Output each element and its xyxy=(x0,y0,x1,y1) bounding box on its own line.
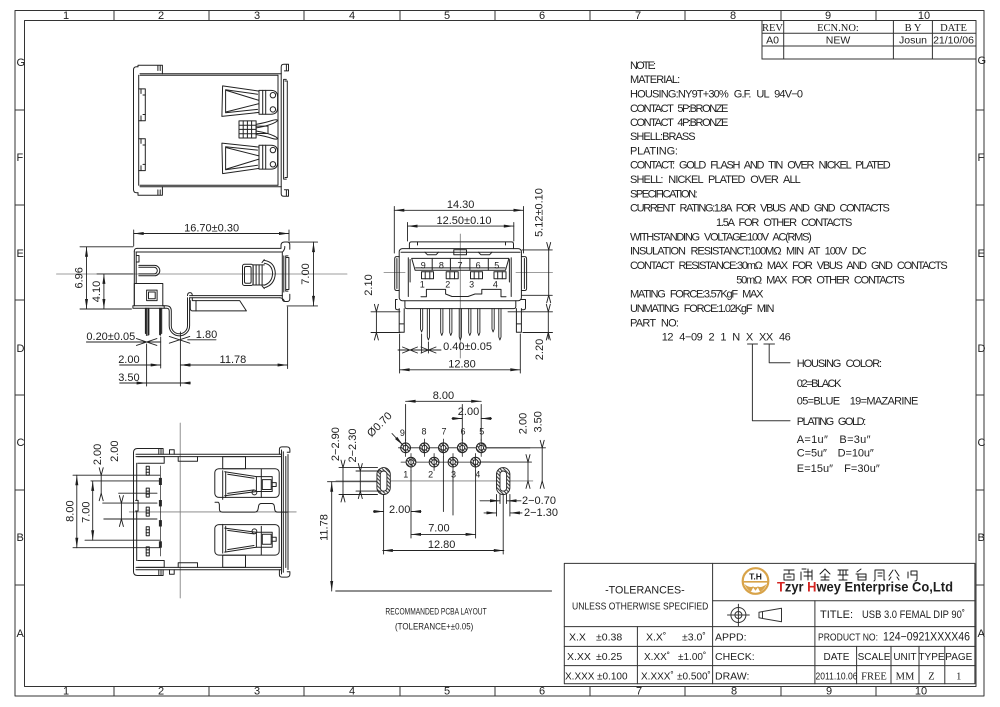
grid letters right xyxy=(978,55,987,640)
svg-text:FREE: FREE xyxy=(861,671,887,682)
centerlines xyxy=(459,234,461,358)
top stamped tabs xyxy=(425,252,439,255)
svg-text:1: 1 xyxy=(63,686,69,698)
svg-text:6: 6 xyxy=(539,10,545,22)
svg-text:7: 7 xyxy=(636,686,642,698)
body outline xyxy=(134,453,137,572)
rounded hook tab xyxy=(139,265,160,275)
side ears xyxy=(395,257,400,291)
svg-text:PART NO:: PART NO: xyxy=(630,318,679,330)
svg-text:2−1.30: 2−1.30 xyxy=(524,507,558,519)
svg-text:124−0921XXXX46: 124−0921XXXX46 xyxy=(883,632,970,644)
dim 5.12+-0.10 xyxy=(522,250,552,295)
svg-text:NOTE:: NOTE: xyxy=(630,60,656,72)
top-right hook xyxy=(281,64,288,74)
svg-text:F: F xyxy=(17,152,24,164)
svg-text:2−2.30: 2−2.30 xyxy=(347,429,359,463)
svg-text:12.50±0.10: 12.50±0.10 xyxy=(437,215,492,227)
svg-text:A: A xyxy=(978,628,986,640)
svg-text:6: 6 xyxy=(539,686,545,698)
right band ticks xyxy=(976,110,984,585)
dim 4.10 xyxy=(97,274,133,309)
top latch xyxy=(222,86,278,117)
svg-text:2.00: 2.00 xyxy=(389,504,410,516)
svg-text:2.00: 2.00 xyxy=(118,354,139,366)
small tab left of plate xyxy=(188,293,193,296)
svg-text:0.20±0.05: 0.20±0.05 xyxy=(86,331,135,343)
svg-text:G: G xyxy=(978,55,987,67)
company chinese name (stylized glyph strokes) xyxy=(784,569,917,581)
svg-text:PAGE: PAGE xyxy=(945,652,972,663)
svg-text:7: 7 xyxy=(635,10,641,22)
svg-text:PLATING GOLD:: PLATING GOLD: xyxy=(797,416,867,428)
svg-text:2.00: 2.00 xyxy=(109,440,121,461)
svg-text:A: A xyxy=(17,628,25,640)
svg-text:2011.10.06: 2011.10.06 xyxy=(816,671,858,682)
svg-text:7.00: 7.00 xyxy=(81,501,93,522)
svg-text:8.00: 8.00 xyxy=(433,390,454,402)
dim 7.00 (pcb) xyxy=(411,457,476,539)
svg-text:X.X˚: X.X˚ xyxy=(646,632,666,644)
svg-text:CONTACT 4P:BRONZE: CONTACT 4P:BRONZE xyxy=(630,117,729,129)
svg-text:±1.00˚: ±1.00˚ xyxy=(678,651,706,663)
dim 2-2.90 xyxy=(339,468,378,495)
svg-text:E: E xyxy=(17,248,24,260)
svg-text:D: D xyxy=(17,343,25,355)
dim 2-1.30 xyxy=(484,495,522,517)
centerlines xyxy=(179,423,181,598)
svg-text:8.00: 8.00 xyxy=(65,500,77,521)
svg-text:4: 4 xyxy=(349,10,355,22)
svg-text:1: 1 xyxy=(63,10,69,22)
svg-text:T.H: T.H xyxy=(749,572,762,582)
svg-text:INSULATION RESISTANCT:100MΩ MI: INSULATION RESISTANCT:100MΩ MIN AT 100V … xyxy=(630,246,867,258)
svg-text:TYPE: TYPE xyxy=(918,652,944,663)
svg-text:2: 2 xyxy=(445,280,450,290)
dim 11.78 (bottom view to pcb line) xyxy=(328,482,391,591)
dim 11.78 (side view) xyxy=(180,307,287,369)
svg-text:DATE: DATE xyxy=(824,652,850,663)
part number callout lines xyxy=(748,344,791,421)
svg-text:5.12±0.10: 5.12±0.10 xyxy=(534,188,546,237)
top/bottom tabs xyxy=(223,457,246,469)
svg-text:B Y: B Y xyxy=(905,23,922,34)
svg-text:X.X: X.X xyxy=(569,632,586,644)
row lines xyxy=(398,448,530,462)
svg-text:SHELL: NICKEL PLATED OVER ALL: SHELL: NICKEL PLATED OVER ALL xyxy=(630,174,801,186)
svg-text:6: 6 xyxy=(460,427,465,437)
svg-text:7: 7 xyxy=(441,427,446,437)
dim 2.00 (pcb top) xyxy=(452,405,492,442)
svg-text:3.50: 3.50 xyxy=(118,372,139,384)
svg-text:2.10: 2.10 xyxy=(363,274,375,295)
grid numbers top xyxy=(63,10,930,22)
svg-text:2.20: 2.20 xyxy=(534,339,546,360)
latch side profile xyxy=(243,260,276,289)
svg-text:CHECK:: CHECK: xyxy=(715,651,755,663)
svg-text:F: F xyxy=(978,152,985,164)
dim 2.00 (pcb bottom-left) xyxy=(374,471,422,555)
svg-text:X.XXX˚: X.XXX˚ xyxy=(641,670,674,682)
svg-text:1: 1 xyxy=(403,470,408,480)
projection symbols xyxy=(728,604,782,626)
svg-text:7: 7 xyxy=(457,260,462,270)
svg-text:2−2.90: 2−2.90 xyxy=(330,427,342,461)
svg-text:Tzyr Hwey Enterprise Co,Ltd: Tzyr Hwey Enterprise Co,Ltd xyxy=(777,580,953,595)
left flange xyxy=(134,70,139,190)
bottom right hook xyxy=(280,294,290,301)
pad tick lines xyxy=(406,439,482,471)
svg-text:2: 2 xyxy=(428,470,433,480)
svg-text:UNLESS OTHERWISE SPECIFIED: UNLESS OTHERWISE SPECIFIED xyxy=(572,601,708,612)
svg-text:1.80: 1.80 xyxy=(196,329,217,341)
svg-text:A0: A0 xyxy=(766,35,779,47)
svg-text:12.80: 12.80 xyxy=(428,539,456,551)
dim 8.00 (pcb) xyxy=(406,401,482,441)
mounting ovals xyxy=(377,468,510,495)
U bend xyxy=(163,298,188,334)
flange notches xyxy=(139,89,146,121)
svg-text:C=5u″ D=10u″: C=5u″ D=10u″ xyxy=(797,448,874,460)
svg-text:12 4−09 2 1 N X XX 46: 12 4−09 2 1 N X XX 46 xyxy=(662,332,791,344)
svg-text:2.00: 2.00 xyxy=(92,444,104,465)
svg-text:±0.500˚: ±0.500˚ xyxy=(677,670,711,682)
contacts under tongue xyxy=(422,272,507,279)
lower plate xyxy=(190,298,246,311)
svg-text:PLATING:: PLATING: xyxy=(630,146,678,158)
svg-text:14.30: 14.30 xyxy=(447,199,475,211)
svg-text:9: 9 xyxy=(826,686,832,698)
svg-text:11.78: 11.78 xyxy=(220,354,247,366)
svg-text:-TOLERANCES-: -TOLERANCES- xyxy=(605,585,685,597)
svg-text:DRAW:: DRAW: xyxy=(715,670,749,682)
title block xyxy=(564,563,975,683)
pins xyxy=(421,309,502,340)
dim 0.20+-0.05 xyxy=(86,339,160,346)
svg-text:9: 9 xyxy=(825,10,831,22)
dim 2-2.30 xyxy=(356,471,381,491)
svg-text:05=BLUE 19=MAZARINE: 05=BLUE 19=MAZARINE xyxy=(797,396,919,408)
svg-text:02=BLACK: 02=BLACK xyxy=(797,378,842,390)
svg-text:RECOMMANDED PCBA LAYOUT: RECOMMANDED PCBA LAYOUT xyxy=(385,607,486,618)
notes text block xyxy=(630,60,948,344)
svg-text:HOUSING COLOR:: HOUSING COLOR: xyxy=(797,358,883,370)
title fields xyxy=(818,609,973,663)
svg-text:±3.0˚: ±3.0˚ xyxy=(682,632,706,644)
svg-text:7.00: 7.00 xyxy=(428,522,449,534)
svg-text:21/10/06: 21/10/06 xyxy=(933,35,974,47)
svg-text:E=15u″ F=30u″: E=15u″ F=30u″ xyxy=(797,463,880,475)
svg-text:PRODUCT NO:: PRODUCT NO: xyxy=(818,633,878,644)
svg-text:B: B xyxy=(978,532,985,544)
dim 2.00 (side view) xyxy=(120,337,191,368)
svg-text:12.80: 12.80 xyxy=(448,359,476,371)
main shell xyxy=(399,249,521,301)
svg-text:WITHSTANDING VOLTAGE:100V AC(R: WITHSTANDING VOLTAGE:100V AC(RMS) xyxy=(630,232,812,244)
lower-left block xyxy=(134,284,163,306)
grid numbers bottom xyxy=(63,686,927,698)
centerline xyxy=(57,273,348,275)
svg-text:8: 8 xyxy=(730,10,736,22)
dia 0.70 leader xyxy=(392,434,403,446)
svg-text:3: 3 xyxy=(254,10,260,22)
svg-text:USB 3.0 FEMAL DIP 90˚: USB 3.0 FEMAL DIP 90˚ xyxy=(862,609,965,621)
company logo xyxy=(743,568,769,594)
svg-text:B: B xyxy=(17,532,24,544)
svg-text:1: 1 xyxy=(420,280,425,290)
shell top double line xyxy=(136,248,283,252)
dim 7.00 (side view right) xyxy=(287,242,318,306)
svg-text:±0.38: ±0.38 xyxy=(596,632,622,644)
svg-text:9: 9 xyxy=(400,428,405,438)
svg-text:A=1u″ B=3u″: A=1u″ B=3u″ xyxy=(797,434,871,446)
dims 2.00 / 3.50 (pcb right) xyxy=(481,448,546,481)
svg-text:ECN.NO:: ECN.NO: xyxy=(817,23,859,34)
svg-text:G: G xyxy=(17,57,26,69)
svg-text:3: 3 xyxy=(254,686,260,698)
svg-text:CURRENT RATING:1.8A FOR VBUS A: CURRENT RATING:1.8A FOR VBUS AND GND CON… xyxy=(630,203,890,215)
svg-text:5: 5 xyxy=(479,427,484,437)
dims left cluster xyxy=(73,475,160,548)
pads bottom row xyxy=(406,457,480,467)
dim 2.20 xyxy=(508,312,553,339)
svg-text:UNIT: UNIT xyxy=(893,652,916,663)
plating gold note xyxy=(797,416,880,475)
svg-text:Z: Z xyxy=(928,671,934,682)
mounting legs xyxy=(399,309,404,333)
top band ticks xyxy=(114,11,876,21)
bottom inner tabs xyxy=(421,289,452,296)
svg-text:2−0.70: 2−0.70 xyxy=(522,495,556,507)
left band ticks xyxy=(15,110,25,585)
svg-text:10: 10 xyxy=(915,686,927,698)
svg-text:2.00: 2.00 xyxy=(518,413,530,434)
dim 3.50 xyxy=(120,332,191,386)
svg-text:CONTACT: GOLD FLASH AND TIN OV: CONTACT: GOLD FLASH AND TIN OVER NICKEL … xyxy=(630,160,891,172)
bottom band ticks xyxy=(114,687,876,697)
svg-text:3: 3 xyxy=(469,280,474,290)
svg-text:5: 5 xyxy=(444,10,450,22)
svg-text:4.10: 4.10 xyxy=(91,281,103,302)
svg-text:CONTACT RESISTANCE:30mΩ MAX FO: CONTACT RESISTANCE:30mΩ MAX FOR VBUS AND… xyxy=(630,260,948,272)
svg-text:TITLE:: TITLE: xyxy=(820,609,853,621)
svg-text:C: C xyxy=(978,437,986,449)
top latch xyxy=(223,469,277,499)
svg-text:±0.100: ±0.100 xyxy=(597,671,628,682)
bottom-left tab xyxy=(138,187,162,195)
top right hook xyxy=(281,242,290,252)
dim 12.80 (pcb) xyxy=(383,495,504,555)
right strip xyxy=(284,79,288,179)
svg-text:D: D xyxy=(978,343,986,355)
svg-text:4: 4 xyxy=(493,280,498,290)
dim 12.80 (front view) xyxy=(400,334,521,373)
svg-text:X.XX˚: X.XX˚ xyxy=(644,651,670,663)
bottom-right hook xyxy=(281,187,288,197)
center latch mechanism xyxy=(239,120,277,139)
svg-text:APPD:: APPD: xyxy=(715,632,747,644)
svg-text:(TOLERANCE+±0.05): (TOLERANCE+±0.05) xyxy=(395,622,473,633)
svg-text:7.00: 7.00 xyxy=(300,263,312,284)
dim 12.50+-0.10 xyxy=(408,223,514,242)
svg-text:0.40±0.05: 0.40±0.05 xyxy=(443,341,492,353)
svg-text:3.50: 3.50 xyxy=(532,411,544,432)
svg-text:UNMATING FORCE:1.02KgF MIN: UNMATING FORCE:1.02KgF MIN xyxy=(630,303,775,315)
svg-text:SHELL:BRASS: SHELL:BRASS xyxy=(630,131,696,143)
pads top row xyxy=(401,443,486,453)
pcb surface line xyxy=(336,590,552,592)
svg-text:6: 6 xyxy=(476,260,481,270)
svg-text:9: 9 xyxy=(421,260,426,270)
shell left edge xyxy=(134,252,136,306)
pins xyxy=(145,308,149,335)
tolerances text xyxy=(565,585,711,683)
upper plate double line xyxy=(190,296,283,298)
svg-text:NEW: NEW xyxy=(826,35,851,47)
dim 16.70+-0.30 xyxy=(134,230,289,246)
svg-text:8: 8 xyxy=(439,260,444,270)
svg-text:10: 10 xyxy=(918,10,930,22)
svg-text:2: 2 xyxy=(158,686,164,698)
svg-text:11.78: 11.78 xyxy=(319,514,331,541)
latch housing frames xyxy=(215,469,279,498)
pin numbers bottom row xyxy=(420,280,498,290)
svg-text:MM: MM xyxy=(896,671,915,682)
svg-text:2.00: 2.00 xyxy=(458,406,479,418)
top-left tab xyxy=(138,65,162,74)
svg-text:DATE: DATE xyxy=(940,23,967,34)
dim 2.10 xyxy=(371,312,400,333)
svg-text:50mΩ MAX FOR OTHER CONTACTS: 50mΩ MAX FOR OTHER CONTACTS xyxy=(736,275,905,287)
svg-text:±0.25: ±0.25 xyxy=(596,651,622,663)
svg-text:3: 3 xyxy=(451,470,456,480)
svg-text:Josun: Josun xyxy=(899,35,927,47)
svg-text:CONTACT 5P:BRONZE: CONTACT 5P:BRONZE xyxy=(630,103,729,115)
centerline xyxy=(336,480,533,482)
svg-text:4: 4 xyxy=(349,686,355,698)
contact bars xyxy=(159,478,162,548)
dim 0.40+-0.05 xyxy=(398,334,441,353)
svg-text:6.96: 6.96 xyxy=(74,267,86,288)
right face flange xyxy=(282,253,284,295)
bottom latch xyxy=(222,143,278,174)
bottom flange xyxy=(405,301,516,309)
svg-text:X.XX: X.XX xyxy=(567,651,591,663)
dim 1.80 xyxy=(169,336,216,343)
svg-text:C: C xyxy=(17,437,25,449)
pin numbers top row xyxy=(421,260,500,270)
top plate xyxy=(409,242,513,249)
svg-text:2: 2 xyxy=(158,10,164,22)
svg-text:E: E xyxy=(978,248,985,260)
svg-text:1.5A FOR OTHER CONTACTS: 1.5A FOR OTHER CONTACTS xyxy=(716,217,853,229)
dim 2-0.70 xyxy=(480,495,521,504)
pin slots xyxy=(146,466,149,556)
grid letters left xyxy=(17,57,26,640)
svg-text:MATING FORCE:3.57KgF MAX: MATING FORCE:3.57KgF MAX xyxy=(630,289,764,301)
bottom latch xyxy=(223,524,277,554)
svg-text:5: 5 xyxy=(494,260,499,270)
middle bumps xyxy=(215,502,287,512)
pad numbers xyxy=(400,427,484,480)
svg-text:16.70±0.30: 16.70±0.30 xyxy=(184,222,239,234)
svg-text:5: 5 xyxy=(444,686,450,698)
svg-text:8: 8 xyxy=(731,686,737,698)
svg-text:REV: REV xyxy=(762,23,783,34)
dim 6.96 xyxy=(80,247,133,309)
appd/check/draw xyxy=(715,632,755,683)
housing color note xyxy=(797,358,919,408)
dim 14.30 xyxy=(394,207,523,254)
socket opening + tongue xyxy=(412,258,509,270)
main body outline xyxy=(140,74,281,187)
revision table xyxy=(762,21,976,60)
svg-text:8: 8 xyxy=(421,427,426,437)
svg-text:1: 1 xyxy=(956,671,961,682)
svg-text:X.XXX: X.XXX xyxy=(565,671,595,682)
svg-text:SCALE: SCALE xyxy=(858,652,891,663)
svg-text:MATERIAL:: MATERIAL: xyxy=(630,74,680,86)
svg-text:SPECIFICATION:: SPECIFICATION: xyxy=(630,189,698,201)
svg-text:HOUSING:NY9T+30% G.F. UL 94V−0: HOUSING:NY9T+30% G.F. UL 94V−0 xyxy=(630,89,803,101)
